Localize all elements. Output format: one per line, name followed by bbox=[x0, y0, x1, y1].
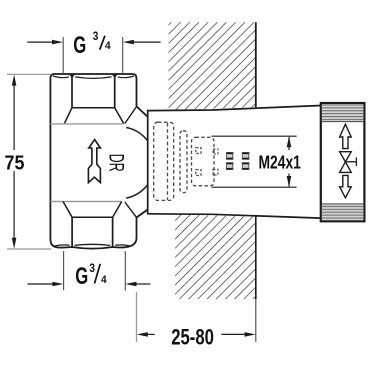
svg-text:4: 4 bbox=[105, 40, 111, 52]
bottom nut top gray line bbox=[50, 201, 121, 203]
cap symbol arrow up bbox=[340, 124, 352, 148]
bottom nut chamfer slant left bbox=[63, 202, 72, 218]
M24 dimension arrow down bbox=[287, 174, 292, 188]
dim top G3/4: left arrow bbox=[27, 40, 63, 45]
dim bottom G3/4: label bbox=[75, 261, 107, 290]
top nut chamfer slant left bbox=[64, 108, 72, 124]
cap symbol arrow down bbox=[340, 175, 352, 197]
dim top G3/4: right arrow bbox=[123, 40, 161, 45]
dim left 75: extension line top bbox=[7, 73, 51, 75]
flow arrow in body bbox=[88, 140, 100, 183]
top nut chamfer slant right bbox=[115, 108, 124, 124]
bottom nut chamfer slant right bbox=[113, 202, 122, 218]
top nut chamfer darts bbox=[69, 75, 117, 78]
dashed seal top bbox=[196, 148, 201, 154]
svg-text:M24x1: M24x1 bbox=[259, 153, 301, 173]
top nut bottom facet line bbox=[72, 107, 115, 109]
dashed spindle narrow part bbox=[180, 131, 187, 193]
dashed seal bottom bbox=[196, 170, 201, 176]
top nut facet line left bbox=[71, 76, 73, 108]
dim bottom G3/4: left arrow bbox=[28, 282, 64, 287]
housing left edge bbox=[147, 110, 149, 215]
bottom nut top facet line bbox=[72, 216, 113, 218]
svg-text:25-80: 25-80 bbox=[171, 324, 214, 349]
thread block column 1 bbox=[226, 152, 233, 170]
connector slant bottom bbox=[125, 202, 137, 217]
dim 25-80: left arrow bbox=[137, 332, 155, 337]
dashed cartridge inner line bbox=[167, 123, 169, 200]
connector slant top bbox=[125, 107, 136, 123]
dim bottom G3/4: extension line right bbox=[124, 251, 126, 291]
cap symbol valve bbox=[340, 152, 357, 173]
dashed bits right bbox=[213, 149, 218, 154]
bottom nut facet line left bbox=[71, 217, 73, 247]
top nut bottom gray line bbox=[50, 123, 123, 125]
M24 extension line bottom bbox=[212, 186, 297, 188]
top nut facet line right bbox=[114, 76, 116, 108]
dim left 75: line + arrows bbox=[12, 75, 17, 249]
wall front surface edge top bbox=[255, 22, 257, 107]
dim 25-80: extension line left bbox=[136, 292, 138, 342]
dim bottom G3/4: right arrow bbox=[126, 282, 151, 287]
housing cone top edge bbox=[148, 106, 321, 111]
svg-text:3: 3 bbox=[93, 29, 99, 43]
svg-text:3: 3 bbox=[89, 261, 95, 275]
top nut chamfer arcs bbox=[53, 76, 134, 78]
svg-text:G: G bbox=[75, 263, 88, 290]
dim 25-80: right arrow bbox=[222, 332, 256, 337]
cap knurl band bottom bbox=[322, 204, 363, 220]
dashed cartridge rect bbox=[154, 122, 174, 200]
protection cap body bbox=[321, 103, 365, 221]
thread block column 2 bbox=[242, 152, 250, 170]
bottom nut facet line right bbox=[112, 217, 114, 247]
valve body outline bbox=[50, 74, 147, 249]
dim bottom G3/4: extension line left bbox=[63, 251, 65, 290]
dim top G3/4: label bbox=[73, 29, 111, 59]
cap knurl band top bbox=[322, 104, 363, 121]
M24 dimension arrow up bbox=[287, 136, 292, 150]
body-to-housing fillet arc bbox=[126, 128, 155, 199]
housing cone bottom edge bbox=[148, 214, 321, 218]
dim top G3/4: extension line right bbox=[122, 37, 124, 74]
svg-text:75: 75 bbox=[5, 152, 25, 174]
dashed piston rect bbox=[192, 137, 215, 186]
M24 extension line top bbox=[212, 135, 297, 137]
wall hatch bottom block bbox=[175, 215, 256, 300]
svg-text:G: G bbox=[73, 32, 86, 59]
dim left 75: extension line bottom bbox=[7, 248, 51, 250]
wall hatch top block bbox=[169, 22, 256, 110]
dim top G3/4: extension line left bbox=[62, 37, 64, 74]
svg-text:4: 4 bbox=[101, 274, 107, 286]
bottom nut chamfer arcs bbox=[55, 244, 130, 246]
wall front surface edge bottom + 25-80 extension line bbox=[255, 217, 257, 300]
svg-text:DR: DR bbox=[105, 154, 129, 172]
